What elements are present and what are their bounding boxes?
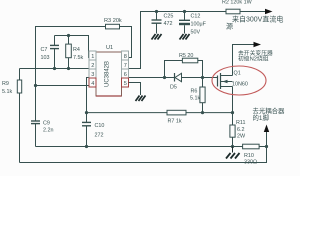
resistor R2 startup <box>222 0 273 14</box>
svg-text:10N60: 10N60 <box>232 82 248 88</box>
wire COMP rail (pin1) <box>55 36 90 58</box>
ground at C12 <box>180 34 190 40</box>
svg-text:2: 2 <box>91 63 94 69</box>
wire arrow up to optocoupler <box>264 125 269 147</box>
transistor Q1 MOSFET <box>218 71 248 90</box>
pin 2 <box>89 60 96 69</box>
ground at C25 <box>152 34 162 40</box>
resistor R10 <box>243 144 267 165</box>
svg-text:7: 7 <box>124 63 127 69</box>
svg-text:7.5k: 7.5k <box>73 55 83 61</box>
svg-text:1: 1 <box>91 54 94 60</box>
wire VFB (pin2) <box>20 68 90 70</box>
svg-text:50V: 50V <box>191 30 201 36</box>
svg-text:R7 1k: R7 1k <box>168 119 182 125</box>
svg-text:UC3842B: UC3842B <box>105 61 111 87</box>
capacitor C10 <box>82 113 104 147</box>
node C10 top <box>85 111 88 114</box>
wire pin6 gate drive <box>129 77 175 79</box>
resistor R11 <box>230 113 246 147</box>
node C10 bottom <box>85 145 88 148</box>
svg-text:D5: D5 <box>170 85 177 91</box>
svg-text:C25: C25 <box>164 14 174 20</box>
pin 3 <box>89 69 96 78</box>
resistor R3 <box>106 24 120 29</box>
pin 5 <box>122 78 129 87</box>
diode D5 <box>170 73 218 91</box>
capacitor C25 <box>152 12 174 34</box>
svg-text:R4: R4 <box>73 47 80 53</box>
svg-text:103: 103 <box>41 55 50 61</box>
svg-text:272: 272 <box>95 133 104 139</box>
ground at pin5 <box>136 96 146 102</box>
svg-text:100μF: 100μF <box>191 22 207 28</box>
node C25 top <box>155 10 158 13</box>
resistor R5 <box>165 53 203 78</box>
svg-text:2W: 2W <box>237 134 246 140</box>
wire R3 right to pin 8 <box>120 27 132 58</box>
svg-text:U1: U1 <box>106 45 113 51</box>
node on C9 column <box>34 84 37 87</box>
svg-text:C9: C9 <box>43 121 50 127</box>
ground at R11 <box>226 147 240 159</box>
svg-text:R2 120k 1W: R2 120k 1W <box>222 0 253 6</box>
wire pin3 down to C10 <box>87 78 90 113</box>
svg-text:6.2: 6.2 <box>237 127 245 133</box>
node R10 right <box>265 145 268 148</box>
node D5 left / R5 tap <box>163 76 166 79</box>
svg-text:6: 6 <box>124 72 127 78</box>
capacitor C12 electrolytic <box>179 12 207 36</box>
node R4 bottom <box>67 67 70 70</box>
svg-text:Q1: Q1 <box>234 71 241 77</box>
resistor R7 <box>167 110 233 124</box>
svg-text:R6: R6 <box>191 89 198 95</box>
node R4 top <box>67 34 70 37</box>
wire drain up with arrow <box>233 42 262 76</box>
node R6 bottom <box>201 111 204 114</box>
pin 4 <box>89 78 96 87</box>
pin 7 <box>122 60 129 69</box>
highlight ellipse around Q1 <box>212 66 266 95</box>
wire feedback bus bottom <box>20 147 267 163</box>
capacitor C7 <box>41 36 60 69</box>
svg-text:472: 472 <box>164 21 173 27</box>
op-amp U1 UC3842B chip body <box>96 52 122 96</box>
resistor R9 <box>2 69 22 163</box>
svg-text:C10: C10 <box>95 123 105 129</box>
wire source to sense node <box>232 87 234 113</box>
wire pin4 RT/CT to left vertical <box>36 85 90 86</box>
svg-text:5: 5 <box>124 81 127 87</box>
wire pin5 to ground <box>129 83 141 96</box>
resistor R6 <box>190 78 205 113</box>
wire ISENSE bus <box>87 112 168 114</box>
svg-text:3: 3 <box>91 72 94 78</box>
pin 8 <box>122 51 129 60</box>
svg-text:的1脚: 的1脚 <box>253 113 269 122</box>
svg-text:R3 20k: R3 20k <box>104 18 122 24</box>
wire ground bus <box>36 146 243 148</box>
svg-text:5.1k: 5.1k <box>2 89 12 95</box>
wire Vcc rail <box>129 12 227 69</box>
capacitor C9 <box>31 121 54 147</box>
svg-text:4: 4 <box>91 81 94 87</box>
svg-text:去光耦合器: 去光耦合器 <box>253 106 286 115</box>
wire Vref rail from R3 left corner <box>36 27 106 122</box>
svg-text:R10: R10 <box>244 153 254 159</box>
svg-text:R11: R11 <box>236 120 246 126</box>
svg-text:8: 8 <box>124 54 127 60</box>
resistor R4 <box>66 36 84 69</box>
node source/R11 <box>231 111 234 114</box>
node gate/R6 <box>201 76 204 79</box>
svg-text:R9: R9 <box>2 81 9 87</box>
pin 6 <box>122 69 129 78</box>
svg-text:R5 20: R5 20 <box>179 53 193 59</box>
node C12 top <box>183 10 186 13</box>
svg-text:5.1k: 5.1k <box>190 96 200 102</box>
node C7 bottom <box>53 67 56 70</box>
pin 1 <box>89 51 96 60</box>
svg-text:2.2n: 2.2n <box>43 128 54 134</box>
node R11 bottom <box>231 145 234 148</box>
svg-text:来自300V直流电: 来自300V直流电 <box>232 15 283 24</box>
svg-text:C12: C12 <box>191 14 201 20</box>
svg-text:C7: C7 <box>41 47 48 53</box>
svg-text:源: 源 <box>226 22 233 31</box>
svg-text:初级N2绕组: 初级N2绕组 <box>238 55 269 63</box>
